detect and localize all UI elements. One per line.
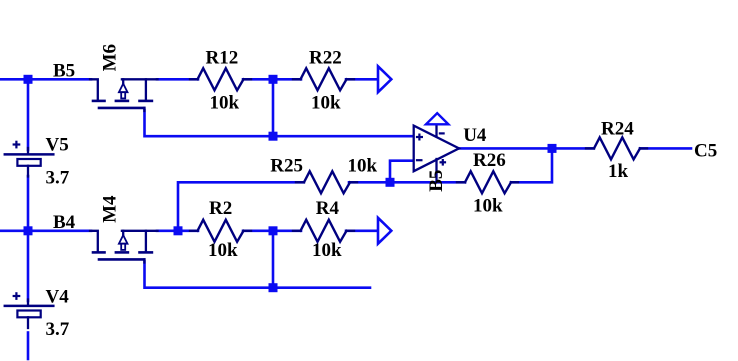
wire node to op-amp - input [390,161,414,183]
battery V4 [5,292,54,328]
svg-text:R4: R4 [316,198,340,219]
wire B5 rail from left edge [0,78,91,81]
svg-text:10k: 10k [311,92,341,113]
wire R4 to port [346,230,378,233]
svg-text:B4: B4 [53,212,76,233]
junction node B5 [24,75,33,84]
svg-text:R25: R25 [270,156,303,177]
junction node B4 [24,226,33,235]
svg-text:R2: R2 [209,198,232,219]
resistor R25 [304,171,350,193]
junction node R25 tap [174,226,183,235]
svg-text:3.7: 3.7 [46,167,70,188]
net flag above op-amp [426,113,448,124]
resistor R2 [198,220,244,242]
svg-text:R22: R22 [309,48,342,69]
transistor M6 [90,79,158,111]
resistor R4 [301,220,347,242]
resistor R22 [301,68,347,90]
svg-text:10k: 10k [312,240,342,261]
wire left bus vertical B5 to V5 [27,79,30,150]
wire R24 to C5 [640,147,691,150]
svg-text:V5: V5 [46,134,69,155]
port arrow after R22 [378,66,391,92]
svg-text:R12: R12 [206,48,239,69]
wire R25 to R26 [349,181,465,184]
junction node inverting input [386,178,395,187]
svg-text:3.7: 3.7 [46,319,70,340]
wire R12 to R22 [243,78,301,81]
wire B4 rail to R25 [178,182,303,231]
resistor R12 [198,68,244,90]
junction node R12/R22 [269,75,278,84]
wire junction column top [272,79,275,136]
svg-text:10k: 10k [208,240,238,261]
svg-text:R26: R26 [473,150,506,171]
wire R22 to port [346,78,378,81]
port arrow after R4 [378,218,391,244]
svg-text:B5: B5 [53,60,75,81]
op-amp U4 [414,125,459,182]
junction node R2/R4 [269,226,278,235]
svg-text:B5: B5 [426,170,447,192]
svg-text:M6: M6 [99,44,120,71]
svg-text:10k: 10k [473,196,503,217]
wire B4 rail from left edge [0,230,91,233]
svg-text:R24: R24 [601,118,634,139]
svg-text:1k: 1k [608,161,629,182]
junction node gate wire top [269,132,278,141]
svg-text:10k: 10k [348,156,378,177]
wire below V4 [27,333,30,360]
junction node gate wire bottom [269,283,278,292]
wire op-amp output [459,147,593,150]
svg-text:10k: 10k [210,92,240,113]
junction node output [548,144,557,153]
wire M6 drain to R12 [157,78,198,81]
svg-text:U4: U4 [463,125,487,146]
battery V5 [5,141,54,177]
resistor R26 [465,171,511,193]
wire M4 gate rail [145,262,371,288]
wire M4 drain to R2 [157,230,198,233]
wire V5 to B4 vertical [27,176,30,301]
wire junction column bottom [272,231,275,288]
transistor M4 [90,231,158,263]
svg-text:M4: M4 [100,195,121,223]
wire R2 to R4 [243,230,301,233]
resistor R24 [594,137,640,159]
svg-text:V4: V4 [46,286,70,307]
wire R26 to output node [511,148,552,182]
svg-text:C5: C5 [694,140,717,161]
wire M6 gate to op-amp + input [145,110,414,136]
